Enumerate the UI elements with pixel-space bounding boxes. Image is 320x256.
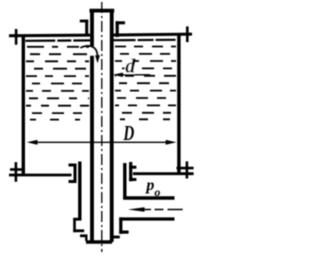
tank right wall (177, 33, 180, 173)
sleeve right wall (123, 163, 126, 198)
tank bottom flange lip right (177, 167, 194, 170)
pipe right wall (110, 9, 114, 242)
inlet lower serif (119, 231, 128, 234)
bottom flange bracket left bottom serif (69, 180, 77, 183)
liquid hatching right of pipe (115, 47, 176, 120)
liquid hatching left of pipe (26, 47, 89, 120)
dimension d leader (112, 73, 150, 77)
inlet pipe bottom wall (119, 217, 174, 220)
svg-text:po: po (144, 177, 160, 199)
tank bottom flange lip left (10, 168, 25, 171)
label d halo (125, 58, 135, 74)
sleeve foot left bar (73, 218, 76, 232)
d arrowhead (112, 73, 123, 77)
collar right vertical (116, 21, 119, 37)
flange tick bottom-left (15, 162, 18, 182)
flow arrow into pipe (curved) (80, 46, 100, 63)
bottom flange bracket right top serif (129, 166, 136, 169)
pipe bottom left ear (80, 234, 88, 237)
bottom flange bracket left top serif (69, 164, 77, 167)
flange tick top-left (15, 29, 18, 45)
tank left wall (22, 35, 25, 175)
liquid surface left (25, 39, 90, 42)
flange tick bottom-right (186, 161, 189, 178)
inlet pipe top wall (123, 196, 174, 199)
bottom flange bracket right bottom serif (129, 178, 136, 181)
pipe bottom right step vertical (110, 236, 113, 242)
sleeve foot left bottom bar (73, 229, 84, 232)
liquid surface right (114, 39, 177, 42)
tank bottom left (9, 174, 72, 177)
flange tick top-right (186, 26, 189, 42)
bottom flange bracket left vertical (74, 164, 77, 184)
pipe left wall lower (90, 56, 94, 243)
lid left (9, 34, 90, 38)
pipe bottom left ear vertical (85, 235, 87, 241)
svg-text:D: D (123, 122, 135, 145)
lid right (114, 33, 192, 37)
sleeve foot left top bar (73, 218, 81, 221)
collar left vertical (85, 20, 88, 36)
pipe top cap (90, 9, 115, 13)
D arrowhead right (166, 140, 177, 145)
centerline (101, 2, 103, 252)
dimension D line (27, 140, 177, 145)
pipe bottom right ear (111, 236, 120, 239)
sleeve left wall (78, 162, 81, 221)
pipe bottom cap (86, 240, 112, 244)
p0 flow arrow (128, 207, 183, 211)
inlet lower vertical (119, 217, 122, 233)
pipe left wall upper (90, 9, 94, 46)
bottom flange bracket right vertical (129, 162, 132, 181)
D arrowhead left (27, 140, 38, 145)
svg-text:d: d (125, 55, 136, 77)
tank bottom right (133, 172, 194, 175)
collar left serif (80, 20, 88, 23)
collar right serif (116, 21, 125, 24)
